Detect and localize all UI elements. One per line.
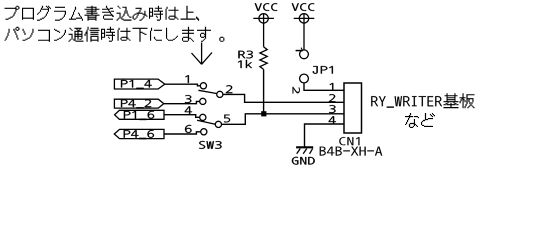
pin number 6 (SW3) — [185, 125, 192, 133]
wire P4_2 to SW3 pin3 — [164, 101, 200, 103]
label R3 — [238, 51, 253, 59]
wire SW3-5 to node A and CN1-3 — [222, 114, 345, 125]
arrow (down) from note to SW3 — [192, 43, 213, 65]
jumper JP1 pin 2 — [300, 74, 309, 83]
pin number 4 (CN1) — [329, 116, 336, 124]
note text line 2 (PC comm = down) — [5, 27, 212, 42]
wire P1_6 to SW3 pin4 — [164, 115, 200, 118]
label VCC (right) — [292, 3, 314, 11]
pin number 3 (CN1) — [329, 105, 336, 113]
annotation 基板 (kanji part) — [444, 93, 475, 108]
pin number 1 (JP1, rotated) — [296, 48, 303, 52]
value B4B-XH-A — [320, 147, 383, 156]
switch SW3 (DPDT contacts and arms) — [197, 83, 223, 135]
note text line 1 (program write = up) — [5, 6, 196, 21]
net tag P4_2 outline — [114, 99, 163, 108]
pin number 2 (JP1, rotated) — [293, 87, 300, 94]
pin number 1 (CN1) — [330, 83, 334, 91]
wire R3 to node A — [263, 69, 265, 113]
label VCC (left) — [255, 3, 277, 11]
net tag P4_6 outline — [114, 129, 164, 138]
value 1k — [238, 60, 252, 68]
power symbol VCC (JP1 column) — [294, 14, 315, 50]
net tag P1_6 outline — [115, 110, 164, 119]
label CN1 — [339, 137, 359, 145]
note text line 1 comma — [196, 17, 199, 21]
pin number 2 (CN1) — [329, 94, 336, 102]
resistor R3 — [260, 47, 267, 70]
annotation RY_WRITER (latin part) — [371, 96, 442, 108]
net label P4_2 — [121, 99, 151, 108]
annotation など — [405, 113, 435, 128]
pin number 5 (SW3) — [224, 115, 230, 123]
label GND — [292, 157, 315, 165]
pin number 2 (SW3) — [226, 85, 233, 93]
label SW3 — [199, 141, 221, 149]
wire P4_6 to SW3 pin6 — [164, 132, 201, 134]
net label P4_6 — [124, 130, 154, 139]
jumper JP1 pin 1 — [300, 50, 309, 59]
connector CN1 body — [344, 83, 362, 133]
pin number 4 (SW3) — [185, 106, 192, 114]
node A junction dot — [261, 111, 266, 116]
wire SW3-2 to CN1-2 — [223, 94, 344, 102]
net label P1_4 — [121, 80, 152, 89]
pin number 1 (SW3) — [185, 75, 189, 83]
wire CN1-4 to GND — [305, 124, 345, 147]
net label P1_6 — [124, 111, 154, 120]
label JP1 — [313, 66, 333, 74]
net tag P1_4 outline — [114, 79, 164, 89]
power symbol VCC (R3 column) — [253, 14, 274, 47]
ground — [296, 147, 313, 154]
wire JP1-2 to CN1-1 — [304, 83, 344, 90]
wire P1_4 to SW3 pin1 — [165, 84, 201, 86]
pin number 3 (SW3) — [185, 95, 192, 103]
note text line 2 period — [219, 37, 224, 42]
